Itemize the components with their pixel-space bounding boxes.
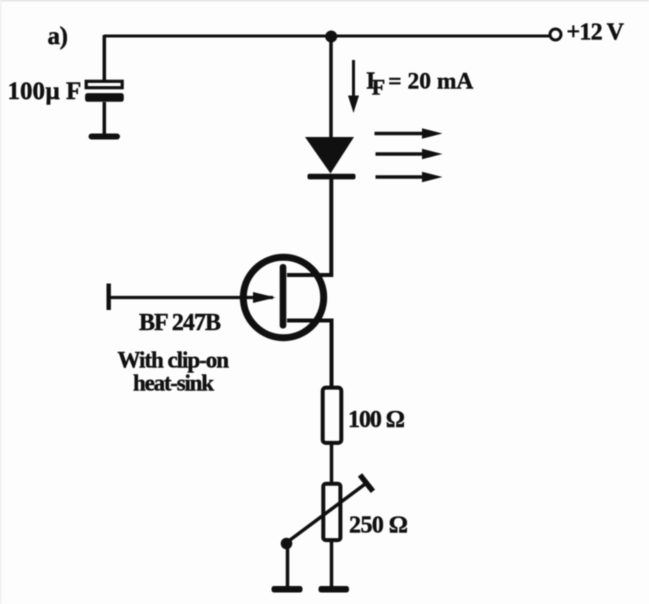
svg-text:μ: μ <box>46 78 60 105</box>
svg-text:+12 V: +12 V <box>567 20 625 46</box>
svg-text:100 Ω: 100 Ω <box>348 407 405 433</box>
svg-text:BF 247B: BF 247B <box>139 310 221 336</box>
svg-text:= 20 mA: = 20 mA <box>388 69 473 95</box>
svg-text:F: F <box>66 78 81 105</box>
svg-text:a): a) <box>48 23 69 50</box>
svg-text:heat-sink: heat-sink <box>133 371 214 396</box>
svg-text:With clip-on: With clip-on <box>118 348 230 373</box>
svg-text:250 Ω: 250 Ω <box>349 513 408 539</box>
svg-text:F: F <box>372 75 385 100</box>
svg-text:100: 100 <box>8 78 46 105</box>
